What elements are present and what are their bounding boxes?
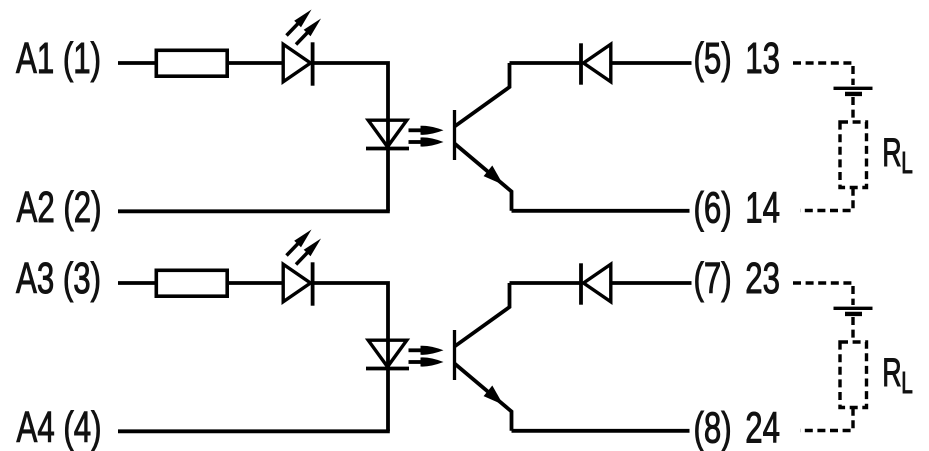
wire load return dashed (bottom) [800, 188, 853, 211]
svg-text:A1 (1): A1 (1) [16, 34, 101, 84]
svg-text:(5): (5) [694, 34, 732, 84]
output diode cathode bar [579, 263, 583, 304]
optocoupler emitter LED triangle (pointing down) [368, 120, 407, 147]
LED D3 anode triangle [283, 264, 310, 302]
optocoupler LED cathode bar [366, 147, 409, 151]
wire emitter to terminal (8) 24 [512, 429, 690, 433]
wire resistor to LED [227, 61, 284, 65]
wire collector to output diode [510, 281, 582, 285]
svg-text:A4 (4): A4 (4) [17, 403, 102, 451]
resistor R1 series [156, 50, 227, 76]
phototransistor emitter lead [455, 364, 512, 431]
wire external supply dashed (top) [793, 63, 853, 85]
svg-text:(8): (8) [694, 403, 732, 451]
svg-text:A3 (3): A3 (3) [16, 254, 101, 304]
svg-text:13: 13 [745, 34, 780, 84]
svg-text:R: R [882, 131, 901, 175]
wire diode to terminal (5) 13 [611, 61, 692, 65]
load resistor RL dashed box [840, 342, 867, 408]
LED emission arrow 1 [287, 23, 300, 36]
phototransistor emitter lead [455, 144, 512, 211]
wire battery to load dashed [851, 317, 854, 342]
LED emission arrow 2 [296, 252, 309, 265]
LED emission arrow 1 [287, 243, 300, 256]
resistor R2 series [156, 270, 227, 296]
svg-text:14: 14 [745, 183, 780, 233]
LED emission arrow 2 [296, 32, 309, 45]
battery external supply long plate [834, 87, 873, 90]
wire resistor to LED [227, 281, 284, 285]
svg-text:L: L [901, 365, 913, 400]
battery external supply long plate [834, 307, 873, 310]
wire diode to terminal (7) 23 [611, 281, 692, 285]
phototransistor collector lead [455, 283, 510, 347]
svg-text:(6): (6) [694, 183, 732, 233]
svg-text:(7): (7) [694, 254, 732, 304]
svg-text:24: 24 [745, 403, 780, 451]
wire load return dashed (bottom) [800, 408, 853, 431]
wire battery to load dashed [851, 97, 854, 122]
phototransistor collector lead [455, 63, 510, 127]
battery external supply short plate [845, 312, 862, 316]
wire A2 (2) return lead [118, 209, 390, 213]
LED cathode bar [311, 42, 315, 85]
wire emitter to terminal (6) 14 [512, 209, 690, 213]
svg-text:L: L [901, 145, 913, 180]
load resistor RL dashed box [840, 122, 867, 188]
output diode triangle (pointing left) [584, 264, 611, 302]
wire A4 (4) return lead [118, 429, 390, 433]
emitter arrowhead [484, 386, 504, 405]
light coupling arrow 1 [409, 128, 425, 132]
LED cathode bar [311, 262, 315, 305]
output diode triangle (pointing left) [584, 44, 611, 82]
svg-text:A2 (2): A2 (2) [17, 183, 102, 233]
light coupling arrow 1 [409, 348, 425, 352]
optocoupler LED cathode bar [366, 367, 409, 371]
wire LED to corner and down to optocoupler input [313, 283, 388, 431]
battery external supply short plate [845, 92, 862, 96]
LED D1 anode triangle [283, 44, 310, 82]
svg-text:R: R [882, 351, 901, 395]
output diode cathode bar [579, 43, 583, 84]
phototransistor Q2 base bar [453, 330, 456, 380]
light coupling arrow 2 [409, 140, 425, 144]
optocoupler emitter LED triangle (pointing down) [368, 340, 407, 367]
wire A3 (3) lead [118, 281, 158, 285]
svg-text:23: 23 [745, 254, 780, 304]
light coupling arrow 2 [409, 360, 425, 364]
phototransistor Q1 base bar [453, 110, 456, 160]
emitter arrowhead [484, 166, 504, 185]
wire external supply dashed (top) [793, 283, 853, 305]
wire A1 (1) lead [118, 61, 158, 65]
wire collector to output diode [510, 61, 582, 65]
wire LED to corner and down to optocoupler input [313, 63, 388, 211]
